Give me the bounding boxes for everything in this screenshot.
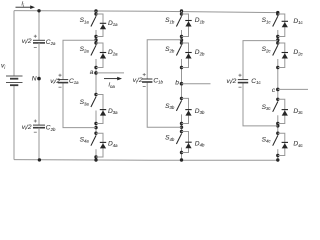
node: bottom rail junction leg c <box>276 158 279 161</box>
node: top rail junction leg a <box>94 9 97 12</box>
node: bottom rail junction leg b <box>180 158 183 161</box>
diode D4a <box>96 133 118 157</box>
svg-text:b: b <box>175 80 179 87</box>
diode D4c <box>278 133 304 155</box>
capacitor C_1b <box>142 73 152 87</box>
switch S3a <box>80 93 98 125</box>
node: top rail junction leg b <box>180 9 183 12</box>
diode D2a <box>96 43 118 68</box>
diode D3a <box>96 95 118 124</box>
wire: flying-capacitor branch leg c <box>243 41 278 126</box>
diode D1b <box>182 14 205 37</box>
node: top rail junction leg c <box>276 11 279 14</box>
wire: leg a column <box>95 11 97 160</box>
capacitor C_1c <box>238 74 248 88</box>
switch S3c <box>262 98 280 126</box>
wire: phase c output <box>278 88 308 90</box>
capacitor C_2b <box>33 120 45 133</box>
switch S4b <box>165 130 183 154</box>
node: bottom rail junction leg a <box>94 158 97 161</box>
node: junction S1c/S2c <box>276 38 279 41</box>
node c (phase output) <box>276 88 280 92</box>
dc source v_i (battery + leads) <box>6 11 23 160</box>
node: junction bottom rail / C2b <box>38 158 41 161</box>
wire: positive DC rail (top) <box>14 11 278 13</box>
wire: leg c column <box>277 13 279 161</box>
node: junction S3c/S4c <box>276 124 279 127</box>
switch S1c <box>262 12 280 38</box>
svg-text:N: N <box>32 76 37 83</box>
wire: phase b output <box>182 83 211 85</box>
node N (neutral point) <box>37 77 41 81</box>
diode D2b <box>182 43 205 68</box>
node: junction top rail / C2a <box>37 9 40 12</box>
node: junction S3a/S4a <box>94 126 97 129</box>
diode D3c <box>278 99 304 123</box>
svg-text:vi/2: vi/2 <box>133 77 143 84</box>
diode D4b <box>182 132 205 153</box>
node b (phase output) <box>180 82 184 86</box>
wire: dc-link branch upper <box>38 11 40 40</box>
svg-text:vi/2: vi/2 <box>22 124 32 131</box>
capacitor C_1a <box>58 74 68 88</box>
diode D3b <box>182 98 205 123</box>
node: junction S3b/S4b <box>180 126 183 129</box>
wire: dc-link branch lower <box>38 128 40 160</box>
switch S4a <box>80 132 98 159</box>
wire: flying-capacitor branch leg b <box>147 40 181 127</box>
switch S2a <box>80 41 98 69</box>
svg-text:a: a <box>90 69 94 76</box>
current arrow i_oa <box>104 77 122 81</box>
svg-text:vi/2: vi/2 <box>22 38 32 45</box>
wire: leg b column <box>181 11 183 160</box>
diode D1a <box>96 14 118 37</box>
node a (phase output) <box>94 71 98 75</box>
current arrow i_i <box>16 5 36 9</box>
switch S1a <box>80 12 98 38</box>
capacitor C_2a <box>33 35 45 48</box>
switch S2b <box>165 41 183 69</box>
node: junction S1b/S2b <box>180 38 183 41</box>
switch S1b <box>165 12 183 38</box>
wire: flying-capacitor branch leg a <box>63 40 96 127</box>
svg-text:vi/2: vi/2 <box>227 78 237 85</box>
wire: dc-link branch middle <box>38 43 40 125</box>
svg-text:vi/2: vi/2 <box>50 78 60 85</box>
wire: negative DC rail (bottom) <box>14 159 278 162</box>
node: junction S1a/S2a <box>94 38 97 41</box>
switch S4c <box>262 132 280 158</box>
diode D1c <box>278 14 304 37</box>
wire: phase a output <box>96 72 124 74</box>
diode D2c <box>278 43 304 68</box>
switch S2c <box>262 41 280 69</box>
switch S3b <box>165 97 183 126</box>
